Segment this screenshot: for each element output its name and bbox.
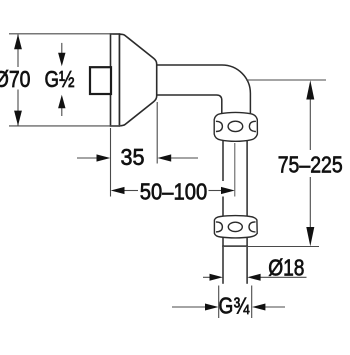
35 left arrow (points right): [97, 154, 111, 161]
pipe between nuts, left edge (with gap for dimension line): [222, 141, 224, 181]
G3/4 left ext line: [218, 286, 220, 319]
G3/4 right arrow tail: [263, 306, 285, 308]
O70 dimension shaft lower: [17, 90, 19, 126]
50-100 dim line right seg: [209, 190, 223, 192]
union nut 1: [214, 112, 257, 141]
pipe centreline: [234, 143, 236, 197]
75-225 bottom ext line: [223, 246, 319, 248]
G3/4 left arrow (points right): [205, 304, 219, 311]
horizontal pipe bottom edge: [157, 94, 216, 96]
svg-text:Ø18: Ø18: [268, 255, 304, 281]
svg-text:75–225: 75–225: [278, 152, 343, 178]
75-225 dim line lower: [309, 177, 311, 232]
G3/4 right ext line: [251, 286, 253, 319]
G3/4 left arrow tail: [172, 306, 207, 308]
G3/4 right arrow (points left): [252, 304, 266, 311]
75-225 down arrow: [306, 227, 314, 246]
horizontal pipe top edge: [157, 64, 222, 66]
50-100 left arrow (points left): [111, 187, 125, 194]
75-225 up arrow: [306, 80, 314, 99]
O18 right leader under text: [258, 276, 307, 278]
O70 dimension shaft upper: [17, 35, 19, 68]
pipe between nuts, right edge: [246, 141, 248, 217]
svg-text:G¾: G¾: [219, 293, 250, 319]
O70 top tick: [9, 33, 113, 35]
O70 up arrow: [14, 34, 22, 49]
O18 right arrow (points left): [247, 274, 260, 281]
O70 down arrow: [14, 111, 22, 126]
35 right ext line (from cone corner): [156, 102, 158, 164]
G1/2 bottom arrow shaft: [61, 106, 63, 116]
35 left ext line (from plate): [110, 128, 112, 197]
elbow inner curve: [217, 95, 222, 113]
wall flange plate: [111, 34, 120, 126]
svg-text:50–100: 50–100: [140, 179, 208, 205]
G1/2 nipple: [90, 67, 111, 94]
svg-text:G½: G½: [45, 66, 75, 92]
elbow outer curve: [222, 65, 250, 113]
svg-text:35: 35: [121, 144, 145, 170]
75-225 dim line upper: [309, 95, 311, 150]
35 right arrow tail: [170, 157, 198, 159]
35 right arrow (points left): [157, 154, 171, 161]
50-100 dim line left seg: [123, 190, 138, 192]
collar seam line: [222, 245, 248, 247]
G1/2 up arrow: [58, 95, 65, 109]
G1/2 down arrow: [58, 53, 65, 67]
75-225 top ext line: [246, 79, 326, 81]
union nut 2: [214, 216, 257, 238]
50-100 right arrow (points right): [221, 187, 235, 194]
O18 left arrow tail: [203, 276, 211, 278]
35 left arrow tail: [77, 157, 97, 159]
arrowheads: [14, 34, 314, 310]
O70 bottom tick: [9, 125, 121, 127]
G1/2 top arrow shaft: [61, 43, 63, 55]
bottom pipe (O18) with collar seam: [222, 238, 224, 284]
svg-text:Ø70: Ø70: [0, 66, 30, 92]
O18 left arrow (points right): [210, 274, 223, 281]
flange cone: [120, 34, 157, 126]
